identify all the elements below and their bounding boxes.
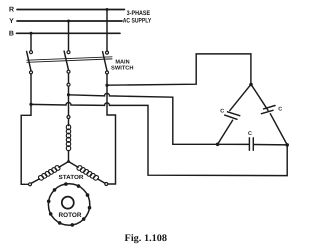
svg-text:Fig. 1.108: Fig. 1.108 bbox=[125, 233, 168, 244]
svg-text:AC SUPPLY: AC SUPPLY bbox=[123, 17, 152, 24]
svg-text:STATOR: STATOR bbox=[59, 174, 85, 181]
svg-text:C: C bbox=[220, 108, 224, 114]
svg-text:Y: Y bbox=[9, 18, 14, 25]
svg-text:ROTOR: ROTOR bbox=[59, 212, 82, 219]
svg-text:C: C bbox=[278, 107, 282, 113]
svg-text:B: B bbox=[9, 30, 14, 37]
svg-text:R: R bbox=[9, 7, 14, 14]
svg-text:SWITCH: SWITCH bbox=[111, 65, 134, 71]
svg-text:3-PHASE: 3-PHASE bbox=[127, 10, 151, 17]
svg-text:C: C bbox=[248, 131, 252, 137]
